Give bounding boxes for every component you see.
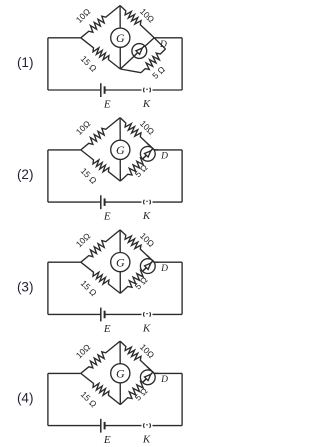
detector D (ammeter) at right vertex <box>140 146 155 161</box>
wire: galvanometer branch vertical <box>119 118 121 182</box>
svg-text:(4): (4) <box>17 391 34 406</box>
wire: left vertex to left rail <box>48 149 81 151</box>
wire: detector branch B to R <box>120 38 154 69</box>
svg-text:G: G <box>116 367 125 381</box>
wire: bottom rail right segment <box>153 201 183 203</box>
resistor 15ohm bottom-left arm <box>81 262 121 293</box>
wire: right rail up <box>181 262 183 314</box>
svg-text:E: E <box>103 99 111 111</box>
wire: bottom rail mid segment <box>105 201 142 203</box>
wire: left rail down <box>47 373 49 425</box>
svg-text:K: K <box>142 322 151 334</box>
wire: left rail down <box>47 150 49 202</box>
key K symbol <box>143 423 146 428</box>
wire: bottom rail left segment <box>48 89 101 91</box>
wire: left vertex to left rail <box>48 37 81 39</box>
svg-text:K: K <box>142 98 151 110</box>
svg-text:K: K <box>142 210 151 222</box>
wire: right rail to right vertex <box>154 261 182 263</box>
svg-text:(2): (2) <box>17 167 34 182</box>
wire: galvanometer branch vertical <box>119 6 121 70</box>
wire: B to corner of 5ohm leg <box>120 69 141 73</box>
battery E <box>100 308 102 322</box>
battery E <box>100 83 102 97</box>
resistor 10ohm top-right arm <box>120 6 154 38</box>
circuit (3) group <box>17 230 182 335</box>
svg-text:G: G <box>116 31 125 45</box>
wire: bottom rail left segment <box>48 201 101 203</box>
svg-text:E: E <box>103 323 111 335</box>
resistor 15ohm bottom-left arm <box>81 373 121 404</box>
wire: left vertex to left rail <box>48 261 81 263</box>
svg-text:D: D <box>160 264 168 274</box>
resistor 10ohm top-right arm <box>120 230 154 262</box>
resistor 5ohm on B-R arm <box>120 373 154 404</box>
svg-text:E: E <box>103 211 111 223</box>
battery E <box>100 419 102 433</box>
wire: arm tail over detector at vertex <box>147 367 154 374</box>
svg-text:D: D <box>160 375 168 385</box>
wire: right rail up <box>181 38 183 90</box>
resistor 15ohm bottom-left arm <box>81 38 121 69</box>
resistor 10ohm top-left arm <box>81 6 120 38</box>
wire: bottom rail left segment <box>48 425 101 427</box>
svg-text:G: G <box>116 255 125 269</box>
svg-text:K: K <box>142 434 151 446</box>
key K symbol <box>143 200 146 205</box>
wire: galvanometer branch vertical <box>119 341 121 405</box>
resistor 10ohm top-left arm <box>81 118 120 150</box>
svg-text:10Ω: 10Ω <box>74 118 93 137</box>
svg-text:5 Ω: 5 Ω <box>133 162 150 179</box>
detector D (ammeter) at right vertex <box>140 259 155 274</box>
resistor 10ohm top-right arm <box>120 118 154 150</box>
wire: left rail down <box>47 262 49 314</box>
svg-text:5 Ω: 5 Ω <box>133 386 150 403</box>
svg-text:E: E <box>103 434 111 446</box>
svg-text:G: G <box>116 143 125 157</box>
resistor 5ohm on B-R arm <box>120 262 154 293</box>
circuit (2) group <box>17 118 182 223</box>
detector D (ammeter) at right vertex <box>140 370 155 385</box>
resistor 10ohm top-right arm <box>120 341 154 373</box>
resistor 5ohm <box>141 49 166 73</box>
svg-text:D: D <box>160 152 168 162</box>
wire: right rail to right vertex <box>154 149 182 151</box>
key K symbol <box>143 312 146 317</box>
wire: bottom rail right segment <box>153 425 183 427</box>
svg-text:15 Ω: 15 Ω <box>79 389 99 409</box>
wire: bottom rail right segment <box>153 313 183 315</box>
svg-text:5 Ω: 5 Ω <box>133 274 150 291</box>
circuit (1) group <box>17 6 182 111</box>
wire: arm tail over detector at vertex <box>147 143 154 150</box>
svg-text:15 Ω: 15 Ω <box>79 278 99 298</box>
wire: right rail up <box>181 373 183 425</box>
resistor 10ohm top-left arm <box>81 341 120 373</box>
wire: bottom rail right segment <box>153 89 183 91</box>
circuit (4) group <box>17 341 182 446</box>
svg-text:10Ω: 10Ω <box>74 6 93 25</box>
svg-text:(1): (1) <box>17 55 34 70</box>
resistor 5ohm on B-R arm <box>120 150 154 181</box>
galvanometer G <box>111 253 130 272</box>
wire: right rail to right vertex <box>154 372 182 374</box>
svg-text:(3): (3) <box>17 280 34 295</box>
wire: right rail up <box>181 150 183 202</box>
wire: bottom rail mid segment <box>105 313 142 315</box>
resistor 15ohm bottom-left arm <box>81 150 121 181</box>
galvanometer G <box>111 28 130 47</box>
svg-text:10Ω: 10Ω <box>74 230 93 249</box>
resistor 10ohm top-left arm <box>81 230 120 262</box>
wire: bottom rail left segment <box>48 313 101 315</box>
wire: left vertex to left rail <box>48 372 81 374</box>
wire: galvanometer branch vertical <box>119 230 121 294</box>
battery E <box>100 195 102 209</box>
wire: bottom rail mid segment <box>105 89 142 91</box>
galvanometer G <box>111 364 130 383</box>
wire: left rail down <box>47 38 49 90</box>
svg-text:15 Ω: 15 Ω <box>79 54 99 74</box>
galvanometer G <box>111 140 130 159</box>
detector D (ammeter) <box>132 44 147 59</box>
wire: arm tail over detector at vertex <box>147 255 154 262</box>
wire: bottom rail mid segment <box>105 425 142 427</box>
wire: corner to R <box>154 38 165 49</box>
svg-text:15 Ω: 15 Ω <box>79 166 99 186</box>
wire: right rail to right vertex <box>154 37 182 39</box>
key K symbol <box>143 88 146 93</box>
svg-text:10Ω: 10Ω <box>74 342 93 361</box>
